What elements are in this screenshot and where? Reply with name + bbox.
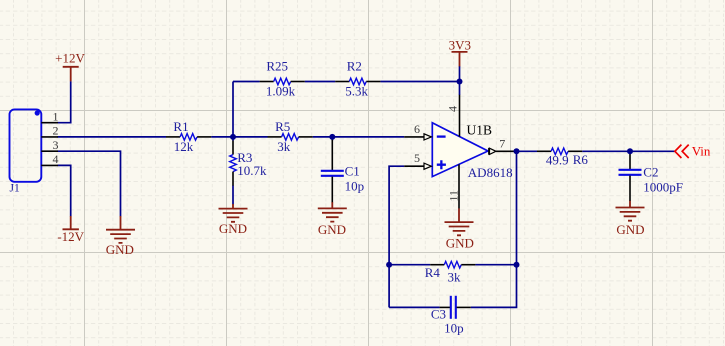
J1 pin 1 [41, 122, 58, 124]
ground GND (R3) [219, 204, 248, 222]
wire R3 bottom to GND [232, 186, 234, 205]
svg-text:R1: R1 [173, 119, 188, 134]
svg-text:1: 1 [53, 109, 59, 123]
ground GND (op-amp) [445, 208, 474, 235]
svg-text:GND: GND [446, 235, 474, 250]
resistor R3 (vertical) [230, 141, 267, 186]
wire node D down to C2 [629, 151, 631, 153]
wire R5 to op-amp pin6 [313, 136, 405, 138]
resistor R1 [166, 119, 211, 154]
ground GND (C1) [318, 202, 347, 222]
J1 pin 2 [41, 136, 58, 138]
op-amp minus input mark [437, 135, 446, 137]
wire pin3 to GND [58, 151, 121, 216]
svg-text:10.7k: 10.7k [237, 163, 267, 178]
capacitor C2 [619, 152, 684, 201]
node 3V3 junction [457, 79, 463, 85]
op-amp U1 triangle [432, 123, 488, 177]
op-amp plus input mark [437, 160, 446, 169]
svg-text:5: 5 [414, 151, 420, 165]
svg-text:49.9: 49.9 [546, 153, 569, 168]
3V3 power symbol [452, 52, 468, 67]
junction feedback right (R4/C3) [514, 262, 520, 268]
wire R1 to node A (junction) to R5 [211, 136, 267, 138]
J1 pin 3 [41, 150, 58, 152]
svg-text:R25: R25 [266, 59, 288, 74]
wire pin4 to -12V [58, 165, 71, 216]
svg-text:3k: 3k [448, 269, 462, 284]
svg-text:GND: GND [106, 242, 134, 257]
svg-text:J1: J1 [10, 183, 20, 195]
wire C3 row left [389, 306, 440, 308]
op-amp pin 4 (V+) [446, 95, 460, 137]
wire R6 to node D to Vin port [582, 150, 674, 152]
wire top row to R25 [233, 81, 260, 83]
capacitor C3 (horizontal) [431, 296, 471, 336]
wire node B down to C1 [331, 137, 333, 141]
ground GND (C2) [616, 201, 645, 221]
node C junction (output/feedback) [514, 148, 520, 154]
svg-text:R6: R6 [573, 152, 589, 167]
svg-text:C1: C1 [345, 163, 360, 178]
op-amp pin 7 (output) [489, 137, 514, 155]
op-amp pin 5 [404, 151, 431, 169]
junction feedback left (R4/C3) [386, 262, 392, 268]
svg-text:-12V: -12V [57, 229, 84, 244]
svg-text:2: 2 [53, 124, 59, 138]
resistor R4 [425, 261, 476, 284]
wire op-amp output pin7 to R6 [514, 150, 537, 152]
wire R4 to right riser [475, 264, 516, 266]
connector J1 body [10, 109, 42, 181]
svg-text:C3: C3 [431, 306, 446, 321]
svg-text:C2: C2 [643, 164, 658, 179]
node B junction (R5/C1/pin6) [329, 134, 335, 140]
wire R2 to 3V3 node [380, 81, 459, 83]
svg-text:10p: 10p [444, 320, 464, 335]
svg-text:GND: GND [616, 222, 644, 237]
wire R25 to R2 [305, 81, 335, 83]
node D junction (R6/C2/Vin) [627, 148, 633, 154]
svg-text:3V3: 3V3 [449, 37, 471, 52]
wire C3 row right and riser up to output node C [471, 151, 517, 307]
svg-text:U1B: U1B [467, 122, 493, 137]
wire feedback left riser to R4 [389, 264, 430, 266]
svg-text:4: 4 [53, 152, 59, 166]
svg-text:5.3k: 5.3k [345, 83, 368, 98]
wire node A down to R3 [232, 137, 234, 141]
resistor R25 [260, 59, 305, 99]
svg-text:3: 3 [53, 138, 59, 152]
svg-text:Vin: Vin [692, 143, 711, 158]
svg-text:R2: R2 [347, 59, 362, 74]
svg-text:1.09k: 1.09k [266, 83, 296, 98]
svg-text:GND: GND [219, 221, 247, 236]
svg-text:AD8618: AD8618 [468, 165, 513, 180]
op-amp pin 6 [404, 122, 431, 140]
svg-text:7: 7 [499, 137, 505, 151]
svg-text:10p: 10p [345, 179, 365, 194]
svg-text:+12V: +12V [55, 50, 85, 65]
svg-text:12k: 12k [174, 139, 194, 154]
svg-text:GND: GND [318, 222, 346, 237]
svg-text:3k: 3k [277, 139, 291, 154]
wire pin5 to feedback left riser [389, 166, 404, 307]
node A junction (R1/R5/R3/riser) [230, 134, 236, 140]
resistor R2 [335, 59, 380, 99]
wire riser node A up to top row [232, 82, 234, 137]
resistor R6 [537, 148, 588, 168]
svg-text:6: 6 [414, 122, 420, 136]
-12V power symbol [63, 216, 79, 229]
wire pin1 to +12V [58, 81, 71, 123]
svg-text:R5: R5 [275, 119, 290, 134]
svg-text:4: 4 [446, 106, 460, 112]
connector J1 polarity dot [35, 110, 40, 115]
resistor R5 [268, 119, 313, 154]
op-amp pin 11 (V-) [447, 164, 461, 208]
svg-text:R4: R4 [425, 265, 441, 280]
wire 3V3 node down to pin4 [459, 66, 461, 95]
svg-text:11: 11 [447, 190, 461, 202]
J1 pin 4 [41, 164, 58, 166]
+12V power symbol [63, 67, 79, 82]
capacitor C1 [321, 138, 364, 202]
svg-text:1000pF: 1000pF [643, 179, 683, 194]
ground GND (J1 pin3) [106, 216, 135, 243]
wire pin2 to R1 [58, 136, 167, 138]
